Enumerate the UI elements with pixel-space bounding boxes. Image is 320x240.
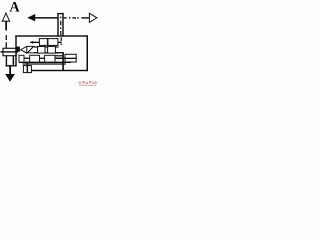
valve body box bbox=[15, 35, 16, 66]
spool land C3 divider bbox=[50, 55, 51, 62]
spool row A arrowhead bbox=[30, 41, 33, 44]
watermark (red) bbox=[79, 81, 97, 86]
wire: left legs bbox=[6, 56, 7, 67]
spool land A2 bbox=[48, 39, 58, 46]
port P stub (top) bbox=[57, 13, 63, 14]
spool row B bottom extension bbox=[55, 52, 62, 53]
spool row B channel bottom bbox=[34, 52, 59, 53]
spool row C band bottom bbox=[19, 62, 71, 63]
spool row C mid line bbox=[19, 58, 75, 59]
dash-dot axis upper bbox=[60, 17, 61, 19]
outflow down arrow bbox=[9, 66, 11, 74]
spool land C4 bbox=[65, 54, 76, 62]
spool land C3 bbox=[45, 55, 55, 62]
throttle triangle bbox=[21, 46, 27, 53]
spool row C mid line through C4 bbox=[55, 58, 76, 59]
port A up arrow bbox=[2, 13, 9, 21]
spool row A axis bbox=[30, 42, 61, 43]
wire: dash-dot pilot line right bbox=[64, 17, 67, 18]
drain port box (bottom) bbox=[23, 66, 31, 73]
spool row B channel top bbox=[34, 46, 59, 47]
wire: arrow stem bbox=[5, 21, 7, 30]
piston mid line bbox=[0, 51, 18, 52]
flow arrow left (solid) bbox=[27, 14, 35, 21]
spool land B1 bbox=[38, 47, 45, 54]
variable-orifice Z arrow bbox=[27, 46, 34, 53]
adjustment arrow right (hollow) bbox=[89, 13, 97, 22]
spool land C2 bbox=[30, 55, 40, 62]
dash-dot axis mid bbox=[61, 37, 62, 41]
restrictor block (left component) bbox=[3, 48, 16, 55]
wire: bottom-left bar bbox=[5, 65, 16, 66]
spool land A1 bbox=[39, 39, 47, 46]
shelf line bbox=[23, 63, 67, 64]
dash-dot axis lower (solid) bbox=[62, 52, 64, 71]
wire: dash-dot centerline left bbox=[6, 35, 7, 40]
spool land B2 bbox=[48, 47, 56, 54]
inlet port block (filled) bbox=[17, 47, 20, 52]
drain port center line bbox=[27, 62, 29, 73]
svg-text:A: A bbox=[9, 0, 20, 16]
spool land C1 bbox=[19, 55, 24, 62]
